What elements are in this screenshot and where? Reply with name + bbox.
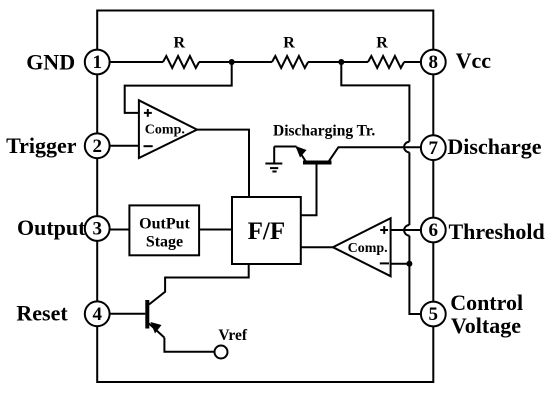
svg-text:7: 7 [429, 138, 439, 159]
svg-text:F/F: F/F [248, 218, 286, 245]
wire: node B down and right to vertical control bus [341, 62, 409, 142]
wire: node A to resistor R2 [232, 61, 272, 63]
wire: pin 4 to Q2 base [110, 313, 146, 315]
pin 6 (Threshold) [421, 218, 446, 243]
wire: vertical control bus hop over threshold wire [404, 225, 409, 236]
pin 5 (Control Voltage) [421, 302, 446, 327]
transistor Q2 emitter arrowhead [151, 322, 162, 334]
svg-text:Stage: Stage [146, 233, 183, 250]
transistor Q2 collector wire up to F/F bottom [149, 264, 249, 305]
svg-text:Comp.: Comp. [145, 123, 185, 138]
wire: node A down and left to comparator 1 + input [125, 62, 232, 113]
svg-text:Discharging Tr.: Discharging Tr. [273, 123, 375, 140]
svg-text:GND: GND [26, 50, 75, 75]
op-amp comparator 2 (threshold comparator) [333, 218, 391, 276]
resistor R1 [163, 35, 199, 68]
wire: comparator 2 - input to node C [391, 263, 410, 265]
wire: vertical control bus between hops [408, 152, 410, 225]
pin 8 (Vcc) [421, 50, 446, 75]
transistor Q2 (reset transistor) base bar [145, 300, 149, 329]
wire: node B to resistor R3 [341, 61, 368, 63]
pin 3 (Output) [85, 216, 110, 241]
wire: OutPut Stage to F/F [199, 229, 232, 231]
wire: node C down to pin 5 (Control Voltage) [409, 264, 421, 314]
node B (junction of R2/R3, 2/3 Vcc tap) [338, 59, 344, 65]
wire: comparator 2 + input to pin 6 (Threshold) [391, 229, 421, 231]
wire: GND bus pin1 to resistor R1 [110, 61, 163, 63]
svg-text:Threshold: Threshold [449, 219, 545, 244]
svg-text:Output: Output [17, 215, 86, 240]
wire: vertical control bus hop over discharge wire [404, 142, 409, 153]
svg-text:R: R [174, 35, 186, 52]
ground symbol [265, 147, 282, 172]
IC boundary box [97, 11, 433, 383]
op-amp comparator 1 (trigger comparator) [139, 100, 197, 158]
svg-text:OutPut: OutPut [139, 216, 190, 233]
svg-text:Comp.: Comp. [348, 241, 388, 256]
svg-text:Voltage: Voltage [451, 313, 521, 338]
node C (comparator 2 - input / control voltage) [406, 261, 412, 267]
transistor Q1 emitter (diagonal to ground corner) [297, 147, 306, 161]
Vref terminal circle [215, 346, 228, 359]
wire: pin 2 to comparator 1 - input [110, 145, 139, 147]
svg-text:Trigger: Trigger [6, 133, 77, 158]
wire: R3 to pin 8 [404, 61, 421, 63]
svg-text:8: 8 [429, 52, 439, 73]
svg-text:Vcc: Vcc [456, 48, 492, 73]
svg-text:R: R [376, 35, 388, 52]
transistor Q1 (discharging transistor) base bar [303, 161, 332, 165]
pin 4 (Reset) [85, 301, 110, 326]
svg-text:6: 6 [429, 220, 439, 241]
wire: Q1 emitter to ground [274, 146, 296, 148]
pin 1 (GND) [85, 50, 110, 75]
transistor Q2 emitter (diagonal down-right) [149, 324, 164, 338]
wire: F/F to comparator 2 output apex [301, 246, 333, 248]
transistor Q1 collector and wire to pin 7 (Discharge) [329, 147, 421, 161]
svg-text:2: 2 [92, 136, 102, 157]
svg-text:4: 4 [92, 304, 102, 325]
wire: comparator 1 output to F/F top [197, 130, 249, 197]
svg-text:3: 3 [92, 219, 102, 240]
svg-text:Discharge: Discharge [447, 134, 541, 159]
svg-text:Vref: Vref [218, 327, 248, 344]
svg-text:1: 1 [92, 52, 102, 73]
wire: R1 to node A [199, 61, 232, 63]
svg-text:Control: Control [450, 290, 523, 315]
resistor R2 [272, 35, 308, 68]
wire: pin 3 to OutPut Stage [110, 229, 130, 231]
wire: Q1 base down and left to F/F [301, 163, 317, 216]
svg-text:R: R [283, 35, 295, 52]
wire: R2 to node B [308, 61, 341, 63]
F/F flip-flop block [232, 197, 301, 264]
svg-text:5: 5 [429, 304, 439, 325]
node A (junction of R1/R2, 1/3 Vcc tap) [229, 59, 235, 65]
wire: Q2 emitter to Vref terminal [164, 338, 214, 352]
svg-text:Reset: Reset [16, 300, 68, 325]
transistor Q1 emitter arrowhead [296, 146, 307, 158]
resistor R3 [368, 35, 404, 68]
pin 7 (Discharge) [421, 135, 446, 160]
OutPut Stage block [129, 205, 199, 255]
pin 2 (Trigger) [85, 133, 110, 158]
wire: vertical control bus to node C [408, 236, 410, 264]
